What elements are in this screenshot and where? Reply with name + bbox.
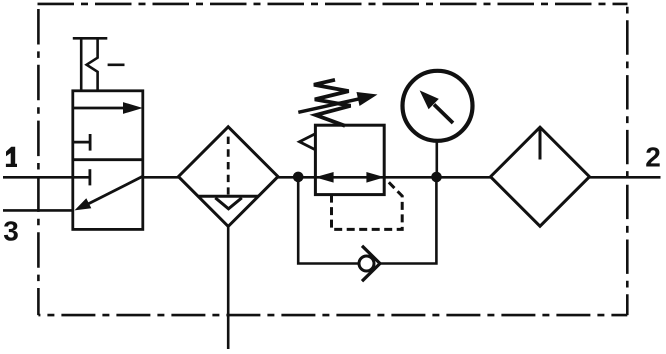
filter F1 separator chord bbox=[199, 195, 259, 198]
port 1 line (wire) bbox=[3, 176, 90, 179]
enclosure border left (dash-dot) bbox=[37, 9, 40, 315]
port label 1 bbox=[6, 147, 17, 167]
valve V1 manual actuator top bar bbox=[73, 37, 108, 40]
check valve loop wire left bbox=[298, 177, 358, 264]
filter F1 drain line bbox=[227, 226, 230, 349]
valve V1 body (3/2-way valve, two position boxes) bbox=[73, 91, 143, 230]
valve V1 actuator dash mark bbox=[108, 64, 125, 67]
svg-text:2: 2 bbox=[645, 142, 661, 173]
check valve CV1 seat bbox=[362, 246, 380, 281]
regulator R1 adjustment arrow bbox=[298, 92, 377, 112]
filter F1 separator inner triangle bbox=[215, 198, 242, 209]
regulator R1 left flow arrowhead bbox=[315, 172, 334, 183]
regulator R1 relief triangle bbox=[300, 134, 316, 151]
node junction dot left bbox=[293, 172, 304, 183]
regulator R1 right flow arrowhead bbox=[366, 172, 384, 183]
valve V1 actuator right rod with detent kink bbox=[87, 38, 98, 91]
valve V1 actuator left rod bbox=[80, 38, 83, 91]
filter F1 dashed condensate line bbox=[227, 137, 230, 195]
valve V1 position-1 flow arrow bbox=[73, 102, 143, 114]
enclosure border top (dash-dot) bbox=[38, 3, 628, 6]
lubricator L1 drip line bbox=[539, 129, 542, 160]
regulator R1 body bbox=[315, 125, 384, 194]
pressure gauge G1 circle bbox=[403, 71, 473, 141]
check valve loop wire right bbox=[380, 177, 436, 264]
wire valve output to filter bbox=[143, 176, 179, 179]
regulator R1 pilot line (dashed) bbox=[332, 181, 403, 230]
valve V1 position-1 blocked port (T) bbox=[73, 134, 90, 151]
lubricator L1 (diamond) bbox=[491, 127, 590, 226]
valve V1 position-2 exhaust arrow (to port 3) bbox=[75, 176, 143, 210]
svg-text:3: 3 bbox=[3, 216, 19, 247]
enclosure border right (dash-dot) bbox=[626, 4, 629, 315]
port 2 line (wire) bbox=[590, 176, 661, 179]
port 3 line (wire) bbox=[3, 209, 73, 212]
check valve CV1 ball bbox=[359, 256, 374, 271]
pressure gauge G1 needle bbox=[420, 90, 453, 123]
regulator R1 adjustment spring bbox=[314, 80, 351, 126]
valve V1 position-2 blocked port (T) bbox=[89, 169, 92, 185]
enclosure border bottom (dash-dot) bbox=[38, 314, 627, 317]
node junction dot right bbox=[431, 172, 442, 183]
pressure gauge G1 stem bbox=[435, 140, 438, 177]
wire filter to regulator to lubricator (main line) bbox=[278, 176, 491, 179]
filter F1 with water separator (diamond) bbox=[178, 127, 278, 227]
